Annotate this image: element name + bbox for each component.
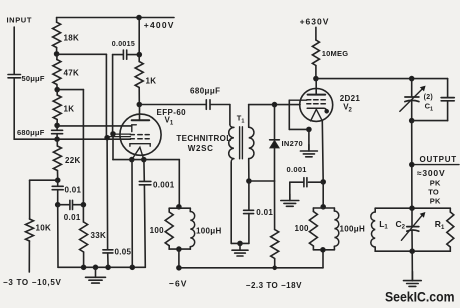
node secondary bottom bbox=[247, 179, 252, 184]
capacitor 0.01 transformer bbox=[248, 181, 250, 210]
wire top rail +400V bbox=[57, 17, 174, 19]
diode IN270 bbox=[274, 105, 276, 140]
V1 plate bbox=[132, 119, 150, 121]
V1 filament bbox=[132, 147, 144, 159]
resistor 1K right bbox=[135, 62, 143, 88]
node network bottom V2 bbox=[321, 248, 326, 253]
wire secondary to diode junction bbox=[249, 180, 275, 182]
resistor 1K left bbox=[56, 90, 58, 95]
V2 shield bbox=[307, 108, 326, 111]
svg-text:W2SC: W2SC bbox=[188, 144, 214, 153]
V1 bottom nodes bbox=[130, 157, 135, 162]
wire V2 cathode down bbox=[321, 121, 324, 182]
inductor 100uH bbox=[190, 212, 194, 247]
node cathode 0.001 bbox=[321, 180, 326, 185]
wire grid bracket to cathode bbox=[112, 134, 114, 160]
wire V1 filament left down bbox=[131, 160, 133, 268]
network rails bbox=[169, 207, 190, 209]
svg-text:0.0015: 0.0015 bbox=[112, 41, 135, 48]
node 0.01 right on 33K chain bbox=[81, 202, 86, 207]
capacitor 680uuF coupling bbox=[205, 100, 207, 110]
transformer T1 primary bbox=[229, 105, 231, 125]
capacitor 50uuF bbox=[8, 74, 21, 76]
ground symbol tank bbox=[411, 272, 413, 281]
node 0.0015 right bbox=[137, 52, 142, 57]
node 680uuF bottom bbox=[55, 137, 60, 142]
svg-text:SeekIC.com: SeekIC.com bbox=[385, 290, 455, 305]
capacitor 0.001 V1 bbox=[139, 180, 151, 182]
resistor 22K bbox=[56, 139, 58, 146]
wire below 50uuF cap bbox=[13, 79, 15, 140]
V2 grid hook bbox=[289, 99, 307, 101]
left ground rail bbox=[58, 266, 145, 268]
inductor L1 bbox=[374, 208, 376, 212]
svg-text:OUTPUT: OUTPUT bbox=[420, 155, 457, 164]
node C1 bottom bbox=[409, 118, 414, 123]
svg-text:0.001: 0.001 bbox=[287, 165, 307, 174]
wire to 10K bbox=[30, 179, 58, 181]
svg-text:+630V: +630V bbox=[300, 17, 330, 27]
transformer T1 secondary bbox=[248, 105, 250, 128]
wire plate rail to C1 bbox=[316, 78, 448, 80]
svg-text:100: 100 bbox=[295, 224, 309, 233]
ground symbol left bbox=[95, 267, 97, 277]
svg-text:0.01: 0.01 bbox=[64, 213, 81, 222]
ground symbol transformer bbox=[239, 243, 241, 250]
network rails V2 bbox=[313, 207, 334, 209]
capacitor 0.01 horizontal bbox=[58, 204, 69, 206]
node C1 top bbox=[409, 76, 414, 81]
svg-text:+400V: +400V bbox=[144, 20, 175, 30]
svg-text:TO: TO bbox=[428, 188, 439, 197]
capacitor 0.05 bbox=[106, 138, 109, 250]
svg-text:−2.3 TO −18V: −2.3 TO −18V bbox=[246, 281, 302, 290]
ground symbol 0.001 bbox=[289, 194, 291, 201]
svg-text:−3 TO −10,5V: −3 TO −10,5V bbox=[3, 278, 62, 287]
V2 cathode filament bbox=[311, 109, 323, 121]
C1 arrow bbox=[400, 89, 423, 112]
resistor 100 V2 bbox=[312, 208, 314, 212]
wire cathode to network bbox=[322, 182, 324, 207]
tank rails bbox=[375, 207, 450, 209]
svg-text:100: 100 bbox=[150, 226, 164, 235]
node 47K-1K junction bbox=[55, 87, 60, 92]
fixed capacitor parallel C1 bbox=[412, 120, 448, 122]
svg-text:1K: 1K bbox=[146, 77, 157, 86]
svg-text:≈300V: ≈300V bbox=[417, 168, 446, 178]
resistor below diode bbox=[274, 181, 276, 230]
svg-text:22K: 22K bbox=[65, 156, 81, 165]
resistor R1 bbox=[449, 208, 451, 212]
variable capacitor C2 bbox=[411, 208, 413, 226]
V1 grid leads bbox=[113, 133, 130, 135]
node V1 plate bbox=[137, 102, 142, 107]
svg-text:47K: 47K bbox=[64, 68, 80, 77]
resistor 18K bbox=[56, 18, 58, 23]
svg-text:1K: 1K bbox=[64, 105, 75, 114]
V2 grid dashes bbox=[307, 99, 311, 101]
node above 680uuF bbox=[55, 123, 60, 128]
node diode top bbox=[272, 102, 277, 107]
C2 arrow bbox=[401, 215, 422, 240]
wire 0.0015 left segment bbox=[57, 53, 107, 55]
svg-text:0.05: 0.05 bbox=[115, 247, 132, 256]
svg-text:100μH: 100μH bbox=[340, 224, 366, 233]
capacitor 0.001 V2 bbox=[308, 181, 323, 183]
node V2 plate top bbox=[314, 76, 319, 81]
wire +630V bbox=[315, 27, 317, 40]
corner mid rail to V2 network bbox=[322, 250, 324, 268]
resistor 100 bbox=[168, 208, 170, 212]
node 0.01 junction bbox=[55, 202, 60, 207]
svg-text:0.001: 0.001 bbox=[153, 180, 175, 189]
wire C1 to tank bbox=[411, 121, 413, 209]
resistor 33K bbox=[82, 205, 84, 222]
resistor 47K bbox=[56, 54, 58, 60]
svg-text:33K: 33K bbox=[91, 231, 107, 240]
svg-text:50μμF: 50μμF bbox=[22, 74, 45, 83]
mid rail -6V bbox=[177, 266, 182, 271]
tube V2 envelope bbox=[300, 88, 333, 121]
V1 cathode hook bbox=[132, 125, 137, 132]
node 22K bottom bbox=[55, 178, 60, 183]
svg-text:10K: 10K bbox=[36, 224, 52, 233]
tube V1 envelope bbox=[120, 114, 161, 155]
node network bottom bbox=[177, 247, 182, 252]
wire to 100-100uH network bbox=[178, 160, 180, 207]
svg-text:PK: PK bbox=[430, 196, 441, 205]
resistor 10K bbox=[26, 219, 34, 241]
svg-text:18K: 18K bbox=[64, 34, 80, 43]
svg-text:(2): (2) bbox=[424, 94, 433, 101]
svg-text:10MEG: 10MEG bbox=[322, 49, 348, 58]
capacitor 0.0015 bbox=[122, 50, 124, 59]
wire 1K right top bbox=[137, 15, 142, 20]
wire V1 plate to coupling cap bbox=[139, 104, 205, 106]
ground symbol V2 grid bbox=[308, 145, 310, 152]
svg-text:0.01: 0.01 bbox=[65, 186, 82, 195]
V1 beam plate bbox=[130, 144, 150, 147]
svg-text:PK: PK bbox=[430, 178, 441, 187]
wire grid line long y139 bbox=[14, 138, 130, 140]
inductor 100uH V2 bbox=[334, 211, 338, 246]
svg-text:TECHNITROL: TECHNITROL bbox=[176, 134, 231, 143]
svg-text:EFP-60: EFP-60 bbox=[157, 108, 187, 117]
wire 0.0015 cap segment bbox=[113, 54, 123, 56]
variable capacitor C1 bbox=[411, 79, 413, 97]
V1 grid dashes bbox=[130, 134, 134, 136]
wire secondary top to V2 grid bbox=[249, 104, 300, 106]
svg-text:INPUT: INPUT bbox=[7, 16, 33, 25]
transformer bottom wire bbox=[231, 242, 249, 244]
wire V1 filament right down with 0.001 bbox=[143, 160, 145, 181]
svg-text:100μH: 100μH bbox=[196, 226, 222, 235]
wire tank to ground bbox=[411, 251, 413, 280]
capacitor 0.01 vertical bbox=[57, 180, 59, 186]
svg-text:2D21: 2D21 bbox=[340, 94, 361, 103]
svg-text:−6V: −6V bbox=[169, 278, 187, 288]
svg-text:680μμF: 680μμF bbox=[190, 87, 220, 96]
V2 plate bbox=[315, 79, 317, 95]
wire to 33K chain bbox=[57, 89, 83, 91]
svg-text:0.01: 0.01 bbox=[256, 208, 273, 217]
resistor 10MEG bbox=[312, 40, 319, 66]
wire cathode line y126 bbox=[57, 125, 132, 127]
transformer core bbox=[239, 127, 241, 159]
capacitor 680uuF bbox=[52, 129, 63, 131]
wire input vertical bbox=[13, 27, 15, 74]
node 18K-47K junction bbox=[54, 52, 59, 57]
svg-text:680μμF: 680μμF bbox=[17, 128, 45, 137]
svg-text:IN270: IN270 bbox=[282, 139, 304, 148]
